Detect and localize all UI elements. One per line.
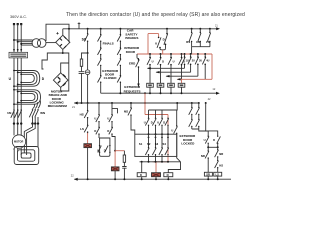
coil SR — [111, 167, 119, 171]
contact RS — [191, 28, 193, 30]
wire BR1 bottom path — [42, 49, 63, 69]
node 42 — [205, 102, 207, 104]
wire phase L2 — [17, 24, 19, 136]
terminal plus — [78, 24, 80, 29]
svg-text:3U: 3U — [199, 60, 202, 63]
coil LS2 — [214, 172, 222, 176]
coil D — [141, 162, 143, 173]
wire speed relay merge — [192, 47, 210, 54]
svg-text:LS: LS — [80, 127, 84, 131]
contact U mid2 with loop — [109, 103, 118, 127]
svg-text:D: D — [94, 129, 96, 133]
wire U/D merge — [160, 48, 166, 49]
wire winding2 columns — [33, 101, 41, 109]
wires winding2 down — [24, 124, 38, 155]
svg-text:RS: RS — [186, 40, 190, 44]
svg-text:S4: S4 — [163, 142, 167, 146]
wire red selector out — [153, 162, 168, 173]
button box 2F — [157, 83, 164, 87]
svg-text:U: U — [155, 41, 157, 45]
contact HS mid — [84, 103, 88, 125]
motor M — [12, 135, 25, 148]
button box 4F — [178, 83, 185, 87]
node bundle L1 — [13, 39, 15, 41]
svg-text:U: U — [173, 60, 175, 63]
contact S2 — [152, 148, 156, 162]
contact sel U2 — [159, 110, 163, 134]
contact sel U5 — [174, 110, 181, 162]
contact lock 2b — [196, 120, 200, 129]
svg-text:HS: HS — [80, 112, 84, 116]
svg-text:HS: HS — [219, 164, 223, 168]
selector contact 3U — [197, 53, 199, 55]
wire phase L1 — [13, 24, 15, 135]
contact interior door pair — [98, 59, 122, 76]
wire lock merge — [192, 129, 208, 136]
svg-text:FINALS: FINALS — [103, 42, 114, 46]
terminal dots motor — [13, 122, 15, 124]
svg-text:D: D — [151, 120, 153, 124]
wire red U/D out — [162, 50, 164, 54]
node SC branch — [87, 28, 89, 30]
svg-text:EXTERIOR: EXTERIOR — [124, 85, 141, 89]
contact FINALS pair — [98, 29, 122, 48]
svg-text:N: N — [167, 173, 169, 177]
svg-text:LS: LS — [206, 40, 210, 44]
contact end dots — [13, 32, 218, 169]
contact U right — [205, 136, 209, 147]
supply terminal L1 — [13, 23, 15, 25]
wire link — [208, 146, 218, 148]
contact SC — [84, 29, 88, 53]
svg-text:D: D — [162, 60, 164, 63]
wire red into box4 — [181, 79, 183, 83]
svg-text:S3: S3 — [155, 142, 159, 146]
svg-text:U: U — [204, 138, 206, 142]
contact S3 — [159, 148, 163, 162]
contactor loop set 2 — [14, 90, 41, 104]
svg-text:D: D — [213, 138, 215, 142]
svg-text:MS: MS — [124, 109, 128, 113]
wire BR2 bottom — [60, 87, 62, 91]
wire arrow link 4 red — [177, 78, 212, 80]
contact D mid1 — [96, 127, 100, 138]
svg-text:MOTOR: MOTOR — [14, 141, 23, 144]
svg-text:U: U — [157, 120, 159, 124]
rectifier BR1 — [56, 35, 70, 49]
wire to brake rectifier — [61, 53, 69, 91]
contact terminal dots — [149, 57, 151, 59]
capacitor C2 — [122, 167, 126, 169]
contact lock 1b — [189, 120, 193, 129]
svg-text:LOCKED: LOCKED — [181, 141, 195, 145]
coil N — [168, 162, 180, 173]
node D col — [166, 28, 168, 30]
svg-text:U: U — [94, 117, 96, 121]
wire transformer top — [46, 24, 69, 42]
contact D direction — [164, 29, 168, 49]
svg-text:NR: NR — [219, 152, 223, 156]
svg-text:U: U — [97, 149, 99, 152]
node finals col2 — [119, 28, 121, 30]
svg-text:UN: UN — [7, 111, 11, 115]
svg-text:U: U — [152, 60, 154, 63]
contact ERD — [136, 54, 140, 84]
node MS branch — [130, 102, 132, 104]
coil SR2 — [204, 172, 212, 176]
contact lock 2a — [196, 103, 200, 119]
contact NR right — [215, 147, 219, 160]
svg-text:2U: 2U — [192, 60, 195, 63]
svg-text:D: D — [163, 120, 165, 124]
svg-text:WN: WN — [40, 111, 45, 115]
rectifier BR2 — [53, 73, 68, 88]
node RC branch — [87, 52, 89, 54]
svg-text:DOOR: DOOR — [126, 50, 136, 54]
selector contact 1U — [184, 53, 186, 55]
node W1 x bus A — [68, 28, 70, 30]
svg-text:D: D — [107, 129, 109, 133]
contact sel D2 — [165, 118, 169, 134]
contact WN group — [29, 110, 38, 124]
svg-text:NR: NR — [201, 154, 205, 158]
svg-text:LS: LS — [216, 173, 220, 177]
svg-text:360V A.C.: 360V A.C. — [10, 15, 27, 19]
request column 2 — [160, 53, 162, 55]
overload box — [9, 52, 28, 58]
wire BR1 top to bus A — [62, 29, 64, 35]
capacitor C1 — [79, 72, 85, 74]
wire red riser — [144, 102, 146, 104]
contact D right — [217, 136, 221, 147]
wire phase L3 — [20, 24, 22, 137]
resistor R2 — [123, 151, 125, 155]
coil SC — [84, 144, 92, 148]
svg-text:D: D — [104, 149, 106, 152]
node lock col1 — [191, 102, 193, 104]
request column 3 — [170, 53, 172, 55]
node BR1 out — [62, 52, 64, 54]
svg-text:SR: SR — [206, 173, 210, 177]
supply terminal L2 — [17, 23, 19, 25]
svg-text:HS: HS — [196, 40, 200, 44]
lamp B1 — [87, 53, 89, 70]
svg-text:D: D — [140, 173, 142, 177]
bus B — [74, 102, 199, 104]
node lock col2 — [198, 102, 200, 104]
wire busB corner right — [149, 103, 178, 110]
contact U direction — [157, 37, 161, 48]
selector box — [135, 134, 177, 156]
svg-text:MECHANISM: MECHANISM — [48, 104, 67, 108]
svg-text:ERD: ERD — [129, 61, 136, 65]
svg-text:S1: S1 — [139, 142, 143, 146]
wire red bus — [137, 54, 212, 79]
request column 4 — [181, 53, 183, 55]
svg-text:U: U — [144, 120, 146, 124]
node finals col1 — [100, 28, 102, 30]
contact car safety brakes pair — [98, 48, 122, 59]
svg-text:U: U — [107, 117, 109, 121]
wire 42 feed — [206, 103, 218, 136]
request bus — [101, 92, 217, 94]
contact U mid1 — [96, 103, 100, 127]
wire bundle to transformer — [14, 40, 33, 45]
node col U1 — [98, 102, 100, 104]
contact exterior door closed pair — [98, 76, 122, 94]
coil U energized — [152, 173, 161, 177]
svg-text:SC: SC — [82, 37, 87, 41]
contact S4 — [165, 148, 169, 155]
supply terminal L3 — [20, 23, 22, 25]
bracket changeover U/D — [99, 138, 110, 152]
selector link bus — [140, 161, 181, 163]
brake linkage loops — [14, 147, 39, 165]
transformer T1 — [32, 39, 41, 48]
bus A — [63, 28, 217, 30]
contact lock 1a — [189, 103, 193, 119]
wire to damper RC — [82, 53, 88, 59]
wire transformer to rectifier — [46, 42, 56, 44]
svg-text:U: U — [171, 128, 173, 132]
node SR branch — [114, 150, 116, 152]
contact LS mid — [84, 125, 88, 133]
button box 3F — [168, 83, 175, 87]
svg-text:Then the direction contactor (: Then the direction contactor (U) and the… — [66, 12, 245, 18]
contact MS — [128, 103, 135, 134]
wire red to SR coil — [114, 151, 116, 167]
request column 1 — [149, 53, 151, 55]
resistor R1 — [80, 59, 82, 66]
button box 1F — [147, 83, 154, 87]
contact HS right — [215, 161, 219, 173]
svg-text:S2: S2 — [147, 142, 151, 146]
node col U2 — [111, 102, 113, 104]
button stubs to bus — [150, 87, 182, 93]
svg-text:4U: 4U — [206, 60, 209, 63]
contact S1 — [145, 148, 149, 162]
svg-text:BRAKES: BRAKES — [125, 36, 138, 40]
selector contact 2U — [190, 53, 192, 55]
contact UN group — [11, 110, 22, 118]
contact NR left — [205, 147, 209, 172]
contact sel U1 — [145, 110, 149, 134]
node bundle L3 — [20, 43, 22, 45]
selector contact 4U — [204, 53, 206, 55]
node bundle L2 — [17, 41, 19, 43]
contact LS top — [209, 28, 211, 30]
wire red to SC coil — [87, 133, 89, 144]
wire arrow link 1 — [148, 67, 185, 69]
wire red feed U — [148, 34, 159, 54]
wire red to RC2 — [115, 150, 124, 152]
contact sel D1 — [152, 110, 156, 134]
wire arrow link 2 — [156, 71, 190, 73]
contact D mid2 — [109, 127, 115, 151]
wire arrow link 3 — [166, 75, 198, 77]
wire cols in box — [149, 134, 169, 147]
svg-text:CLOSED: CLOSED — [104, 76, 118, 80]
bottom bus — [74, 178, 231, 180]
contact HS top — [199, 28, 201, 30]
contactor loop set U/D — [14, 71, 40, 87]
